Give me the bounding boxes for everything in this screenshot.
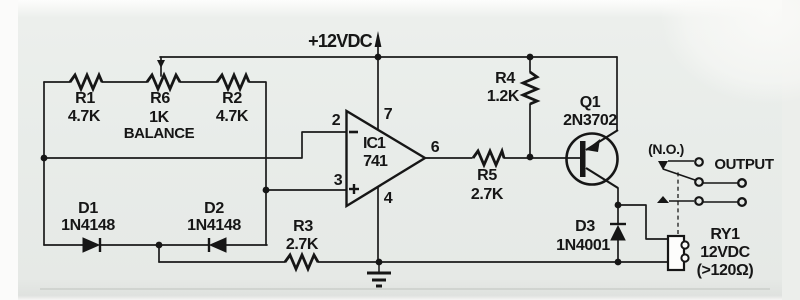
svg-text:R6: R6: [150, 90, 170, 107]
resistor R3: [285, 255, 318, 269]
svg-text:1.2K: 1.2K: [487, 88, 520, 105]
svg-text:1N4148: 1N4148: [187, 217, 241, 234]
resistor R4 vertical: [523, 72, 537, 104]
svg-text:R2: R2: [222, 90, 242, 107]
wire top supply rail: [160, 56, 617, 58]
svg-text:2.7K: 2.7K: [471, 186, 504, 203]
svg-text:1N4001: 1N4001: [556, 237, 610, 254]
wire op-amp pin4 to ground: [377, 187, 379, 262]
svg-text:4.7K: 4.7K: [216, 108, 249, 125]
resistor R6 potentiometer: [147, 60, 180, 89]
svg-text:OUTPUT: OUTPUT: [714, 156, 774, 173]
+12VDC supply arrow: [375, 31, 382, 47]
wire +12VDC arrow shaft: [377, 44, 379, 57]
wire R3 right lead rail to relay: [318, 261, 669, 263]
transistor Q1 2N3702: [567, 130, 619, 188]
wire Q1 collector drop: [617, 188, 619, 205]
relay actuation dashed link: [677, 172, 679, 234]
wire node A to pin3: [266, 189, 346, 191]
svg-text:R1: R1: [75, 90, 95, 107]
svg-text:IC1: IC1: [363, 135, 386, 152]
relay contact arm (N.O.) row1: [658, 158, 703, 170]
node junction dot diode row: [156, 242, 163, 249]
svg-text:7: 7: [384, 106, 393, 123]
node junction dot ground: [376, 259, 383, 266]
svg-text:R5: R5: [477, 167, 497, 184]
svg-text:1N4148: 1N4148: [61, 217, 115, 234]
wire D3 bottom lead: [617, 240, 619, 262]
relay contact row2: [695, 178, 746, 187]
svg-text:+12VDC: +12VDC: [308, 31, 373, 51]
resistor R1: [70, 75, 102, 89]
wire junction stub down: [158, 245, 160, 262]
svg-text:6: 6: [431, 139, 440, 156]
wire R6 to R2: [180, 81, 217, 83]
node junction dot collector: [615, 202, 622, 209]
wire node B to Q1 base: [530, 157, 580, 159]
node junction dot left column: [41, 155, 48, 162]
svg-text:D2: D2: [204, 200, 224, 217]
node junction dot +12VDC: [375, 54, 382, 61]
node junction dot D3 bottom: [615, 259, 622, 266]
node junction dot R4 top: [527, 54, 534, 61]
svg-text:BALANCE: BALANCE: [124, 125, 195, 142]
wire R6 wiper drop: [160, 57, 162, 62]
svg-text:741: 741: [363, 153, 388, 170]
svg-text:2: 2: [332, 112, 341, 129]
svg-text:(N.O.): (N.O.): [648, 141, 684, 157]
wire R1 to R6: [102, 81, 147, 83]
wire R5 to node B: [504, 157, 530, 159]
svg-text:1K: 1K: [149, 109, 169, 126]
wire op-amp output lead: [425, 157, 430, 159]
svg-text:4.7K: 4.7K: [68, 108, 101, 125]
wire collector to relay coil top: [618, 205, 669, 239]
node junction dot R4/R5/base: [527, 154, 534, 161]
resistor R2: [217, 75, 249, 89]
wire node to pin2 step: [44, 132, 346, 158]
diode D1: [83, 238, 100, 252]
node junction dot pin3: [263, 187, 270, 194]
wire R2 right lead and drop to node A: [249, 82, 266, 245]
wire Q1 emitter riser: [616, 57, 618, 130]
svg-text:(>120Ω): (>120Ω): [697, 262, 754, 279]
svg-text:4: 4: [384, 190, 393, 207]
diode D2: [209, 238, 226, 252]
svg-text:R3: R3: [293, 218, 313, 235]
wire D2 right lead: [226, 244, 267, 246]
svg-text:R4: R4: [495, 70, 515, 87]
wire op-amp pin7 supply: [377, 57, 379, 129]
svg-text:12VDC: 12VDC: [700, 244, 750, 261]
op-amp IC1 741 triangle: [347, 111, 426, 206]
relay contact row3: [657, 196, 746, 206]
svg-text:Q1: Q1: [580, 94, 601, 111]
wire D1 to D2: [100, 244, 209, 246]
wire D3 top lead: [617, 205, 619, 223]
wire R6 wiper tip lead: [160, 66, 162, 76]
svg-text:RY1: RY1: [710, 226, 740, 243]
svg-text:3: 3: [334, 172, 343, 189]
svg-text:D3: D3: [575, 218, 595, 235]
relay moving blade: [663, 169, 695, 180]
op-amp plus sign: [349, 184, 359, 194]
svg-text:2.7K: 2.7K: [286, 236, 319, 253]
wire R4 bottom lead to node: [529, 104, 531, 157]
svg-text:D1: D1: [78, 200, 98, 217]
wire R4 top lead: [529, 57, 531, 72]
diode D3: [610, 224, 626, 240]
svg-text:2N3702: 2N3702: [563, 112, 617, 129]
resistor R5: [473, 151, 504, 165]
wire diode row D1 left lead: [44, 244, 83, 246]
wire left input column: [43, 82, 45, 245]
wire bottom ground rail: [159, 261, 285, 263]
wire op-amp output to R5: [425, 157, 472, 159]
wire resistor row R1 left lead: [44, 81, 70, 83]
ground symbol: [367, 262, 391, 286]
relay RY1 coil: [668, 236, 689, 270]
op-amp minus sign: [349, 131, 358, 134]
